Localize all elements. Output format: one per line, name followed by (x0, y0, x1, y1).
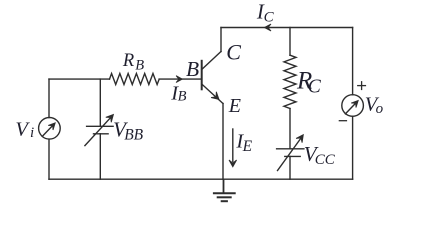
plus sign (357, 81, 366, 90)
transistor Q1 base bar (201, 60, 203, 91)
wire VCC to bottom (289, 156, 291, 179)
wire collector vertical (220, 28, 222, 52)
svg-text:E: E (228, 95, 241, 117)
ground (213, 179, 236, 201)
wire top horizontal (221, 27, 353, 29)
resistor RB (110, 74, 160, 85)
svg-text:BB: BB (124, 127, 143, 144)
voltmeter Vi (39, 118, 61, 140)
transistor Q1 emitter arrowhead (211, 92, 219, 100)
voltmeter Vo needle arrowhead (351, 101, 358, 108)
svg-text:B: B (186, 57, 199, 81)
svg-text:R: R (122, 51, 134, 71)
source VBB arrow shaft (85, 118, 111, 146)
wire IE arrow shaft (232, 129, 234, 162)
source VCC short plate (285, 155, 300, 157)
wire RC branch top (289, 28, 291, 56)
wire base lead (159, 78, 201, 80)
wire emitter diagonal (202, 84, 223, 104)
source VBB long plate (87, 125, 114, 127)
source VBB arrowhead (106, 115, 114, 123)
svg-text:o: o (376, 101, 384, 117)
arrow IC (264, 24, 271, 31)
wire VBB vertical bottom (99, 134, 101, 179)
svg-text:B: B (135, 58, 144, 74)
source VCC arrowhead (296, 135, 303, 143)
source VCC long plate (277, 148, 304, 150)
svg-text:i: i (30, 125, 34, 141)
arrow IE head (229, 160, 237, 167)
wire top-left horizontal (49, 78, 110, 80)
voltmeter Vi needle arrowhead (48, 123, 55, 130)
svg-text:C: C (308, 77, 322, 98)
voltmeter Vo (342, 95, 364, 117)
svg-text:V: V (15, 118, 30, 140)
svg-text:C: C (264, 10, 275, 26)
arrow IB (176, 76, 182, 83)
svg-text:B: B (178, 89, 187, 105)
source VBB short plate (94, 133, 109, 135)
wire emitter vertical (222, 104, 224, 180)
svg-text:CC: CC (315, 152, 336, 168)
resistor RC (284, 55, 296, 108)
wire collector diagonal (202, 52, 221, 70)
wire left vertical top segment (48, 79, 50, 117)
source VCC arrow shaft (278, 138, 301, 170)
svg-text:E: E (242, 138, 253, 155)
minus sign (339, 120, 347, 122)
wire left vertical bottom segment (48, 139, 50, 179)
wire VBB vertical top (99, 79, 101, 126)
wire right vertical top (352, 28, 354, 95)
wire RC to VCC (289, 109, 291, 149)
svg-text:C: C (226, 39, 241, 64)
wire bottom horizontal (49, 178, 353, 180)
wire right vertical bottom (352, 116, 354, 179)
